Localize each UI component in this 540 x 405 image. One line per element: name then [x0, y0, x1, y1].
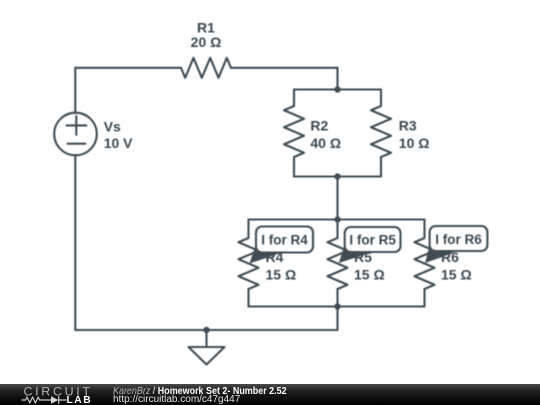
- wire R3 bottom lead: [380, 157, 382, 177]
- wire R5 top lead: [336, 220, 338, 239]
- wire top rail from Vs to R1: [75, 67, 181, 69]
- wire from node B down to node C: [336, 177, 338, 220]
- callout I for R5: [339, 227, 401, 263]
- Vs plus sign: [67, 116, 87, 135]
- wire R6 bottom lead: [423, 289, 425, 307]
- wire from Vs top up to top rail: [74, 68, 76, 113]
- svg-text:10 V: 10 V: [104, 135, 133, 151]
- svg-text:R1: R1: [197, 19, 215, 35]
- resistor R3: [371, 106, 391, 157]
- footer bar: [0, 384, 540, 405]
- node B junction dot: [334, 173, 340, 179]
- logo resistor zigzag: [22, 397, 52, 403]
- svg-text:15 Ω: 15 Ω: [266, 266, 297, 282]
- footer line 2: [113, 395, 240, 405]
- logo diode triangle: [51, 396, 58, 404]
- svg-text:I for R5: I for R5: [349, 233, 396, 248]
- svg-text:R2: R2: [310, 118, 328, 134]
- svg-text:Vs: Vs: [104, 118, 121, 134]
- wire R2 bottom lead: [293, 157, 295, 177]
- wire from node D down to bottom rail: [336, 307, 338, 331]
- logo diode bar and line: [59, 396, 67, 404]
- resistor R5: [328, 238, 348, 289]
- wire R3 top lead: [380, 90, 382, 107]
- CircuitLab logo: [0, 384, 540, 405]
- svg-text:R3: R3: [399, 118, 417, 134]
- svg-text:15 Ω: 15 Ω: [354, 266, 385, 282]
- wire from Vs bottom to bottom rail: [74, 155, 76, 330]
- svg-text:10 Ω: 10 Ω: [399, 135, 430, 151]
- resistor R6: [415, 238, 435, 289]
- node C junction dot: [334, 216, 340, 222]
- ground: [189, 330, 225, 365]
- wire bottom rail: [75, 329, 337, 331]
- wire top rail of R4 R5 R6 bank: [249, 218, 425, 220]
- wire R4 bottom lead: [247, 289, 249, 307]
- svg-text:40 Ω: 40 Ω: [310, 135, 341, 151]
- wire bottom rail of R2 R3 parallel pair: [294, 175, 381, 177]
- svg-text:20 Ω: 20 Ω: [191, 34, 222, 50]
- resistor R2: [284, 106, 304, 157]
- voltage source Vs: [54, 113, 97, 156]
- wire R4 top lead: [247, 220, 249, 239]
- wire R2 top lead: [293, 90, 295, 107]
- wire R5 bottom lead: [336, 289, 338, 307]
- wire R6 top lead: [423, 220, 425, 239]
- node D junction dot: [334, 303, 340, 309]
- wire from R1 to right corner: [231, 67, 338, 69]
- footer line 1: [113, 387, 287, 397]
- resistor R1: [181, 58, 231, 78]
- node G junction dot: [203, 327, 209, 333]
- callout I for R6: [425, 226, 487, 263]
- wire top rail of R2 R3 parallel pair: [294, 88, 381, 90]
- wire bottom rail of R4 R5 R6 bank: [249, 305, 425, 307]
- svg-text:LAB: LAB: [67, 395, 93, 405]
- svg-text:15 Ω: 15 Ω: [441, 266, 472, 282]
- node A junction dot: [334, 86, 340, 92]
- resistor R4: [239, 238, 259, 289]
- wire down from top rail to node A: [336, 68, 338, 90]
- callout I for R4: [250, 227, 314, 264]
- svg-text:I for R6: I for R6: [435, 232, 482, 247]
- svg-text:I for R4: I for R4: [261, 233, 308, 248]
- Vs minus sign: [68, 143, 86, 145]
